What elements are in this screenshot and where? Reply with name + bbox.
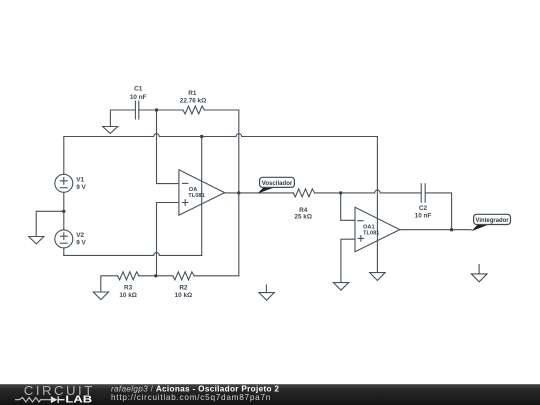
svg-text:25 kΩ: 25 kΩ bbox=[294, 214, 312, 221]
capacitor C1 bbox=[135, 101, 138, 119]
node flag Vintegrador bbox=[471, 214, 510, 231]
wire OA output bbox=[225, 192, 294, 194]
svg-text:10 kΩ: 10 kΩ bbox=[175, 292, 193, 299]
wire R3 right to R2 left bbox=[139, 275, 173, 277]
wire OA1 noninverting input bbox=[341, 239, 355, 282]
node dot C2/OA1 output junction bbox=[450, 228, 453, 231]
label C1 value bbox=[130, 86, 147, 101]
ground GND-OA1-Vminus bbox=[370, 273, 385, 281]
wire -9V rail with hop bbox=[64, 253, 202, 256]
svg-text:http://circuitlab.com/c5q7dam8: http://circuitlab.com/c5q7dam87pa7n bbox=[111, 393, 271, 402]
node dot C1/R1 junction bbox=[155, 108, 158, 111]
footer title text bbox=[111, 384, 279, 402]
wire mid-supply to ground bbox=[36, 211, 64, 236]
voltage source V1 bbox=[55, 174, 73, 192]
svg-text:TL081: TL081 bbox=[363, 230, 379, 236]
wire output-node vertical x=238.8 bbox=[238, 110, 240, 276]
wire R1 right lead bbox=[204, 109, 238, 111]
label R1 value bbox=[180, 90, 206, 105]
ground GND-C1 bbox=[103, 127, 118, 134]
op-amp OA minus pin mark bbox=[182, 182, 187, 184]
svg-text:10 nF: 10 nF bbox=[130, 94, 147, 101]
wire inverting-input horizontal bbox=[157, 183, 179, 185]
svg-text:TL081: TL081 bbox=[188, 193, 204, 199]
wire inverting-input vertical x=156.5 bbox=[156, 110, 158, 184]
wire noninverting-input horizontal bbox=[157, 202, 179, 204]
ground GND-floating-right bbox=[478, 265, 480, 274]
resistor R3 bbox=[118, 272, 139, 280]
svg-text:rafaelgp3 / Acionas - Oscilado: rafaelgp3 / Acionas - Oscilador Projeto … bbox=[111, 384, 279, 393]
label V1 value bbox=[76, 177, 86, 191]
label OA1 name bbox=[363, 224, 379, 236]
node dot OA output junction bbox=[237, 191, 240, 194]
svg-text:10 kΩ: 10 kΩ bbox=[119, 292, 137, 299]
svg-text:R1: R1 bbox=[188, 90, 197, 97]
svg-text:R3: R3 bbox=[124, 285, 133, 292]
label R2 value bbox=[175, 285, 193, 300]
svg-text:9 V: 9 V bbox=[76, 240, 86, 247]
op-amp OA plus pin mark bbox=[182, 200, 188, 206]
label R4 value bbox=[294, 207, 312, 221]
node dot bus/OA V+ junction bbox=[200, 135, 203, 138]
wire OA1 output bbox=[400, 229, 472, 231]
svg-text:V1: V1 bbox=[76, 177, 84, 184]
svg-text:10 nF: 10 nF bbox=[415, 213, 432, 220]
op-amp OA1 plus pin mark bbox=[358, 236, 364, 242]
label R3 value bbox=[119, 285, 137, 300]
ground GND-R3 left bbox=[101, 276, 118, 292]
wire R4 right to C2 with hop bbox=[315, 190, 422, 193]
label V2 value bbox=[76, 232, 86, 246]
svg-text:C2: C2 bbox=[419, 205, 428, 212]
svg-text:LAB: LAB bbox=[65, 395, 92, 405]
op-amp OA1 minus pin mark bbox=[358, 220, 363, 222]
node dot R4/OA1 minus junction bbox=[339, 191, 342, 194]
resistor R4 bbox=[293, 189, 314, 197]
node dot R3/R2 junction bbox=[154, 274, 157, 277]
resistor R1 bbox=[183, 106, 204, 114]
wire V1 bottom to V2 top bbox=[63, 192, 65, 230]
svg-text:V2: V2 bbox=[76, 232, 84, 239]
wire V1 top lead bbox=[63, 137, 65, 175]
svg-text:22.76 kΩ: 22.76 kΩ bbox=[180, 97, 206, 104]
wire C1 left to ground corner bbox=[110, 110, 135, 126]
ground GND-OA1-plus bbox=[333, 283, 348, 291]
wire OA1 V+ / V- vertical x=377.4 bbox=[376, 137, 378, 273]
label C2 value bbox=[415, 205, 432, 220]
wire OA1 inverting input bbox=[341, 193, 355, 220]
node flag Voscilador bbox=[257, 177, 294, 193]
svg-text:R2: R2 bbox=[179, 285, 188, 292]
wire C1 right to R1 bbox=[139, 109, 183, 111]
ground GND-floating-center bbox=[265, 285, 267, 292]
resistor R2 bbox=[173, 272, 194, 280]
wire +9V bus with hops bbox=[64, 134, 378, 137]
wire OA V+ / V- vertical x=201.7 bbox=[201, 137, 203, 256]
node dot V1/V2 mid junction bbox=[62, 210, 65, 213]
wire V2 bottom lead bbox=[63, 248, 65, 256]
op-amp OA body bbox=[179, 170, 225, 215]
svg-text:Vintegrador: Vintegrador bbox=[476, 217, 509, 224]
ground GND-supply bbox=[29, 237, 44, 244]
svg-text:C1: C1 bbox=[134, 86, 143, 93]
label OA name bbox=[188, 187, 204, 199]
wire C2 right corner down bbox=[425, 193, 451, 230]
wire noninverting-input vertical x=156.5 bbox=[156, 203, 158, 276]
CircuitLab logo wordmark bbox=[15, 383, 95, 405]
voltage source V2 bbox=[55, 230, 73, 248]
capacitor C2 bbox=[421, 184, 425, 203]
svg-text:OA1: OA1 bbox=[363, 224, 375, 230]
op-amp OA1 body bbox=[355, 207, 400, 251]
svg-text:9 V: 9 V bbox=[76, 184, 86, 191]
svg-text:Voscilador: Voscilador bbox=[262, 180, 293, 187]
wire R2 right lead bbox=[194, 275, 239, 277]
